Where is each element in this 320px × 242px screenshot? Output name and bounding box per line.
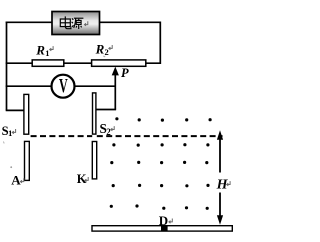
magnetic field dots row 5	[110, 204, 209, 210]
plate D (bottom screen)	[92, 226, 232, 231]
wire left rail	[6, 22, 8, 111]
power supply label 源	[72, 18, 84, 29]
magnetic field dots row 1	[115, 117, 211, 121]
pilcrow after R2	[109, 45, 112, 50]
plate upper-left (above S1)	[24, 94, 29, 134]
svg-text:A: A	[11, 173, 21, 188]
svg-text:P: P	[121, 66, 129, 80]
svg-text:R: R	[35, 42, 45, 57]
wiper arrow of R2	[112, 67, 119, 76]
pilcrow after K	[85, 177, 88, 182]
wire wiper horizontal to plate K	[96, 109, 116, 111]
beam axis dashed line	[31, 135, 223, 137]
wire top-left	[6, 21, 52, 23]
svg-text:1: 1	[8, 128, 12, 138]
resistor R2 (potentiometer)	[92, 60, 146, 66]
svg-text:V: V	[59, 75, 68, 97]
stray speck	[2, 142, 5, 144]
stray speck	[103, 56, 105, 57]
magnetic field dots row 3	[110, 161, 208, 164]
pilcrow after 电源	[84, 21, 87, 26]
resistor R1	[32, 60, 64, 66]
wire right rail	[159, 22, 161, 65]
plate upper-right (above S2)	[93, 93, 96, 134]
power supply label 电	[60, 16, 71, 28]
svg-text:H: H	[216, 178, 229, 193]
plate lower-right K	[92, 142, 96, 179]
svg-text:2: 2	[105, 47, 109, 57]
wire R1-R2 row	[6, 62, 161, 64]
plate lower-left A	[25, 141, 30, 180]
stray speck	[10, 166, 12, 168]
magnetic field dots row 4	[112, 184, 210, 188]
svg-text:R: R	[95, 41, 105, 56]
pilcrow after D	[169, 219, 172, 224]
pilcrow after H	[227, 181, 230, 186]
svg-text:1: 1	[45, 48, 49, 58]
wire top-right	[100, 21, 162, 23]
pilcrow after S2	[111, 126, 114, 131]
wire to plate A	[6, 109, 24, 111]
pilcrow after S1	[12, 129, 15, 134]
height arrow H (double-headed)	[217, 130, 223, 225]
landing mark on plate D	[161, 225, 168, 231]
svg-text:K: K	[77, 172, 87, 186]
pilcrow after R1	[50, 46, 53, 51]
power supply box	[52, 12, 100, 35]
wire wiper vertical	[114, 74, 116, 110]
pilcrow after A	[20, 178, 23, 183]
magnetic field dots row 2	[112, 143, 209, 147]
voltmeter V	[52, 75, 75, 98]
wire voltmeter row	[6, 85, 116, 87]
